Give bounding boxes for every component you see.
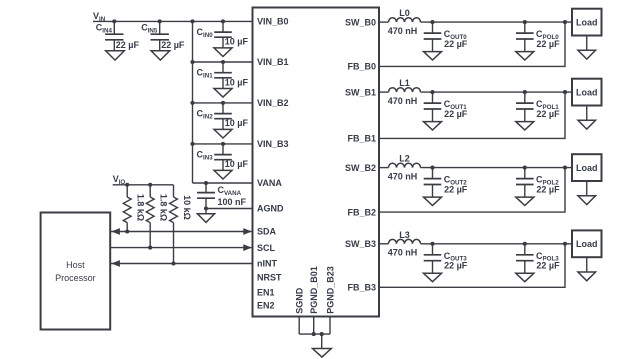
svg-text:22 µF: 22 µF (444, 261, 468, 271)
arrowhead nINT into host (111, 260, 120, 267)
svg-text:SW_B2: SW_B2 (345, 163, 376, 173)
ground below CIN4 (106, 51, 125, 60)
wire SW_B1 stub (379, 91, 389, 93)
svg-text:nINT: nINT (257, 259, 277, 269)
resistor R3 10 kΩ pull-up (170, 185, 178, 264)
node junction VIN bus top (190, 19, 194, 23)
wire SCL host to IC (110, 247, 252, 249)
ground below COUT0 (424, 52, 442, 60)
wire load ground stem row 1 (586, 106, 588, 121)
inductor L1 470nH (389, 88, 421, 92)
capacitor CIN5 22uF (151, 21, 169, 50)
ground below CPOL0 (516, 52, 534, 60)
wire SW_B3 stub (379, 243, 389, 245)
svg-text:Host: Host (66, 260, 85, 270)
capacitor CPOL1 22uF (516, 92, 534, 122)
wire L0 to load (421, 21, 573, 23)
node junction feedback tap row 1 (563, 90, 567, 94)
wire VIO rail (113, 184, 174, 186)
ground below CIN5 (151, 51, 170, 60)
ground below COUT3 (424, 273, 442, 281)
svg-text:1.8 kΩ: 1.8 kΩ (159, 194, 169, 221)
node junction ground stem on bar (320, 332, 324, 336)
svg-text:SW_B0: SW_B0 (345, 17, 376, 27)
host processor box (41, 213, 111, 330)
resistor R2 1.8 kΩ pull-up (146, 185, 154, 248)
svg-text:VIN_B3: VIN_B3 (257, 139, 289, 149)
node junction VIN bus row 2 (190, 101, 194, 105)
svg-text:SGND: SGND (295, 287, 305, 314)
svg-text:22 µF: 22 µF (536, 261, 560, 271)
node junction CIN0 tap (221, 19, 225, 23)
svg-text:AGND: AGND (257, 204, 284, 214)
node junction CIN3 tap (221, 142, 225, 146)
wire L2 to load (421, 167, 573, 169)
inductor L2 470nH (389, 163, 421, 167)
capacitor CPOL3 22uF (516, 244, 534, 273)
svg-text:SDA: SDA (257, 227, 277, 237)
node junction R3 bottom (171, 261, 175, 265)
capacitor CIN4 22uF (105, 21, 123, 50)
svg-text:PGND_B23: PGND_B23 (325, 266, 335, 314)
svg-text:L0: L0 (399, 8, 410, 18)
arrowhead SCL into IC (243, 244, 252, 251)
ground below load row 1 (578, 120, 596, 129)
ground below CIN1 (214, 89, 232, 98)
svg-text:FB_B1: FB_B1 (347, 134, 376, 144)
svg-text:L1: L1 (399, 78, 410, 88)
capacitor COUT0 22uF (424, 22, 442, 51)
node junction feedback tap row 0 (563, 20, 567, 24)
node junction R2 bottom (148, 246, 152, 250)
capacitor COUT1 22uF (424, 92, 442, 122)
wire PGND_B01 lead (313, 317, 315, 335)
inductor L0 470nH (389, 18, 421, 22)
load box row 3 (572, 230, 602, 257)
svg-text:CIN5: CIN5 (141, 23, 158, 35)
wire nINT IC to host (110, 263, 252, 265)
node junction CIN5 on VIN rail (158, 19, 162, 23)
svg-text:22 µF: 22 µF (444, 184, 468, 194)
svg-text:CIN2: CIN2 (197, 109, 214, 121)
svg-text:Load: Load (576, 17, 598, 27)
node junction CPOL0 (523, 20, 527, 24)
node junction R1 top (125, 183, 129, 187)
svg-text:22 µF: 22 µF (444, 109, 468, 119)
op-amp-style main IC U1 body (253, 8, 380, 317)
node junction R2 top (148, 183, 152, 187)
wire VIN bus to VIN_B2 (193, 102, 253, 104)
svg-text:VIN_B0: VIN_B0 (257, 17, 289, 27)
svg-text:Load: Load (576, 163, 598, 173)
wire load ground stem row 2 (586, 181, 588, 196)
capacitor CIN0 10uF (214, 21, 232, 48)
node junction COUT2 (430, 166, 434, 170)
node junction CVANA top (204, 181, 208, 185)
capacitor CVANA 100nF (197, 183, 215, 209)
svg-text:EN1: EN1 (257, 287, 275, 297)
node junction COUT3 (430, 242, 434, 246)
svg-text:10 µF: 10 µF (225, 77, 249, 87)
svg-text:22 µF: 22 µF (536, 109, 560, 119)
capacitor CIN1 10uF (214, 62, 232, 89)
node junction CPOL2 (523, 166, 527, 170)
ground below COUT1 (424, 122, 442, 130)
svg-text:L3: L3 (399, 230, 410, 240)
node junction CIN4 on VIN rail (112, 19, 116, 23)
svg-text:22 µF: 22 µF (444, 39, 468, 49)
wire bottom ground bar (299, 333, 330, 335)
svg-text:Load: Load (576, 87, 598, 97)
node junction CIN2 tap (221, 101, 225, 105)
node junction feedback tap row 3 (563, 242, 567, 246)
capacitor CIN2 10uF (214, 103, 232, 129)
svg-text:10 µF: 10 µF (225, 37, 249, 47)
node junction COUT0 (430, 20, 434, 24)
ground below load row 3 (578, 272, 596, 281)
ground below CPOL1 (516, 122, 534, 130)
svg-text:22 µF: 22 µF (536, 39, 560, 49)
svg-text:1.8 kΩ: 1.8 kΩ (136, 194, 146, 221)
wire L1 to load (421, 91, 573, 93)
wire VIN vertical bus (192, 21, 194, 183)
resistor R1 1.8 kΩ pull-up (123, 185, 131, 232)
wire VANA feed from VIN bus (193, 182, 253, 184)
load box row 0 (572, 9, 602, 36)
svg-text:L2: L2 (399, 154, 410, 164)
arrowhead SDA into host (111, 228, 120, 235)
svg-text:10 µF: 10 µF (225, 159, 249, 169)
wire SW_B0 stub (379, 21, 389, 23)
wire AGND to IC (206, 208, 253, 210)
node junction feedback tap row 2 (563, 166, 567, 170)
svg-text:470 nH: 470 nH (388, 248, 418, 258)
svg-text:SW_B3: SW_B3 (345, 239, 376, 249)
ground below load row 2 (578, 196, 596, 205)
svg-text:SW_B1: SW_B1 (345, 87, 376, 97)
capacitor CPOL2 22uF (516, 168, 534, 198)
load box row 2 (572, 154, 602, 181)
capacitor CPOL0 22uF (516, 22, 534, 51)
node junction CIN1 tap (221, 60, 225, 64)
wire VIN bus to VIN_B3 (193, 143, 253, 145)
wire PGND_B23 lead (329, 317, 331, 335)
wire SDA host to IC (110, 231, 252, 233)
load box row 1 (572, 79, 602, 106)
svg-text:VIN_B1: VIN_B1 (257, 57, 289, 67)
ground below COUT2 (424, 197, 442, 205)
svg-text:FB_B0: FB_B0 (347, 62, 376, 72)
wire bottom ground stem (321, 334, 323, 348)
node junction CPOL3 (523, 242, 527, 246)
wire L3 to load (421, 243, 573, 245)
wire FB_B2 return (379, 168, 565, 213)
ground main (bottom) (313, 349, 332, 358)
svg-text:CIN3: CIN3 (197, 150, 214, 162)
arrowhead SDA into IC (243, 228, 252, 235)
wire VIN bus to VIN_B1 (193, 61, 253, 63)
svg-text:100 nF: 100 nF (218, 197, 247, 207)
wire CVANA ground stem (205, 209, 207, 214)
svg-text:CIN4: CIN4 (96, 23, 113, 35)
svg-text:EN2: EN2 (257, 301, 275, 311)
node junction PGND_B01 on bar (312, 332, 316, 336)
ground below CVANA (197, 214, 214, 223)
wire FB_B0 return (379, 22, 565, 66)
svg-text:FB_B2: FB_B2 (347, 207, 376, 217)
ground below load row 0 (578, 50, 596, 59)
node junction R1 bottom (125, 229, 129, 233)
wire FB_B3 return (379, 244, 565, 287)
node junction COUT1 (430, 90, 434, 94)
svg-text:SCL: SCL (257, 243, 276, 253)
svg-text:VIN_B2: VIN_B2 (257, 98, 289, 108)
node junction CPOL1 (523, 90, 527, 94)
svg-text:22 µF: 22 µF (116, 40, 140, 50)
svg-text:Load: Load (576, 239, 598, 249)
svg-text:CIN0: CIN0 (197, 27, 214, 39)
wire FB_B1 return (379, 92, 565, 138)
inductor L3 470nH (389, 239, 421, 243)
ground below CIN3 (214, 170, 232, 179)
ground below CPOL2 (516, 197, 534, 205)
wire SGND lead (298, 317, 300, 335)
capacitor COUT2 22uF (424, 168, 442, 198)
node junction AGND/CVANA bottom (204, 206, 208, 210)
capacitor CIN3 10uF (214, 144, 232, 171)
svg-text:NRST: NRST (257, 272, 282, 282)
ground below CIN0 (214, 48, 232, 57)
ground below CPOL3 (516, 273, 534, 281)
svg-text:PGND_B01: PGND_B01 (309, 266, 319, 314)
wire VIN rail to VIN_B0 (93, 20, 253, 22)
svg-text:CVANA: CVANA (218, 185, 242, 197)
svg-text:22 µF: 22 µF (536, 184, 560, 194)
node junction VIN bus row 1 (190, 60, 194, 64)
svg-text:470 nH: 470 nH (388, 172, 418, 182)
capacitor COUT3 22uF (424, 244, 442, 273)
svg-text:FB_B3: FB_B3 (347, 283, 376, 293)
wire load ground stem row 3 (586, 257, 588, 272)
svg-text:470 nH: 470 nH (388, 26, 418, 36)
wire SW_B2 stub (379, 167, 389, 169)
svg-text:470 nH: 470 nH (388, 96, 418, 106)
ground below CIN2 (214, 129, 232, 138)
svg-text:CIN1: CIN1 (197, 68, 214, 80)
svg-text:10 kΩ: 10 kΩ (182, 195, 192, 220)
svg-text:22 µF: 22 µF (161, 40, 185, 50)
svg-text:10 µF: 10 µF (225, 118, 249, 128)
node junction VIN bus row 3 (190, 142, 194, 146)
svg-text:VANA: VANA (257, 178, 282, 188)
svg-text:Processor: Processor (55, 273, 96, 283)
wire load ground stem row 0 (586, 36, 588, 51)
